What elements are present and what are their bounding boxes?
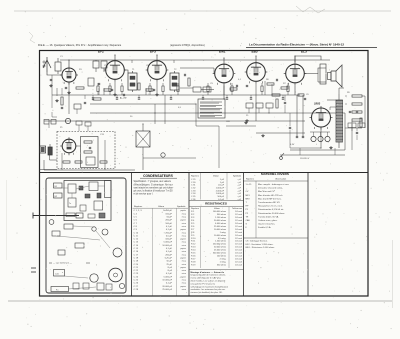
svg-text:R 19: R 19: [191, 264, 196, 266]
svg-text:– µF: – µF: [237, 185, 242, 187]
chassis: wiring run c: [73, 226, 94, 227]
svg-text:R 6: R 6: [191, 226, 195, 228]
loudspeaker HP: [328, 65, 343, 87]
dial scale block: [198, 99, 225, 118]
antenna: [43, 57, 47, 68]
svg-text:Potentiomètre 50.000 ohms.: Potentiomètre 50.000 ohms.: [258, 212, 285, 215]
wire: mid bottom links: [143, 157, 196, 159]
svg-text:50 µF: 50 µF: [166, 261, 172, 263]
svg-text:R 18: R 18: [191, 261, 196, 263]
svg-text:mica: mica: [182, 254, 187, 256]
trimmer row c: [266, 103, 273, 108]
svg-text:T1: T1: [132, 69, 135, 71]
svg-text:il sera utile d'ajuster le CAV: il sera utile d'ajuster le CAV plus: [191, 277, 221, 280]
svg-text:et de service pour I.: et de service pour I.: [134, 192, 154, 195]
svg-text:50 pF: 50 pF: [167, 217, 173, 219]
capacitor C6 near V4: [235, 85, 237, 87]
svg-text:S: S: [246, 224, 248, 226]
resistor R4 vertical: [138, 83, 140, 90]
svg-text:7s: 7s: [69, 203, 71, 205]
wire: transformer to rectifier: [327, 99, 336, 101]
svg-text:Transformateur BF 1/3.: Transformateur BF 1/3.: [258, 201, 280, 204]
svg-text:C 25: C 25: [134, 280, 139, 282]
svg-text:mica: mica: [182, 289, 187, 291]
svg-text:0,1 µF: 0,1 µF: [166, 251, 173, 253]
resistor R13: [84, 151, 92, 153]
wire: V6 cathode: [294, 85, 296, 95]
wire: grid bus drops: [95, 60, 97, 61]
rule under condensateurs heading: [140, 177, 177, 179]
svg-text:papier: papier: [180, 239, 186, 241]
svg-text:R 7: R 7: [191, 229, 195, 231]
outer frame of schematic sheet: [40, 51, 369, 297]
svg-text:HP: HP: [246, 206, 250, 208]
small parts row above BF box c: [76, 121, 82, 125]
resistor R9 mains dropper: [352, 95, 362, 97]
column rules inside resistances table: [200, 207, 202, 268]
svg-text:Potentiomètre 0,5 M. A. int.: Potentiomètre 0,5 M. A. int.: [258, 208, 284, 211]
svg-text:C 11: C 11: [134, 235, 139, 237]
chassis: small box r: [58, 250, 65, 255]
chassis: wiring run a: [62, 187, 68, 189]
chassis: small box k: [83, 283, 89, 289]
svg-text:Observation: Observation: [275, 178, 287, 181]
svg-text:1/4 watt: 1/4 watt: [235, 210, 242, 213]
chassis: bottom circle: [119, 283, 124, 288]
wire: right side links: [345, 95, 347, 97]
potentiometer P1: [48, 147, 52, 155]
svg-text:10.000 pF: 10.000 pF: [162, 245, 172, 247]
tube V2 (EF2): [104, 59, 127, 82]
wire: mid horizontal y68: [180, 67, 214, 69]
wire: BF bottom bus: [44, 169, 135, 171]
svg-text:papier: papier: [180, 286, 186, 288]
inner box of BF unit: [81, 137, 99, 168]
svg-text:mica: mica: [182, 280, 187, 282]
capacitor C19 bottom right: [356, 131, 358, 133]
wire: left mains: [43, 160, 45, 170]
svg-text:Clavier 4 touches.: Clavier 4 touches.: [258, 223, 276, 226]
svg-text:mica: mica: [182, 232, 187, 234]
wire: verticals right middle: [264, 81, 266, 95]
horizontal rule between schematic and parts lists: [40, 172, 369, 174]
condensateurs continuation rows: [191, 175, 242, 201]
rectifier tube V7: [310, 106, 333, 130]
svg-text:– µF: – µF: [237, 179, 242, 181]
output transformer to speaker wires: [304, 68, 326, 74]
svg-text:papier: papier: [180, 267, 186, 269]
svg-text:C 5: C 5: [134, 217, 138, 219]
capacitor C11 filter: [349, 110, 351, 112]
svg-text:C 30: C 30: [191, 182, 196, 184]
svg-text:8 µF: 8 µF: [168, 270, 173, 272]
wire: link to V4: [201, 89, 214, 91]
svg-text:Montage d'antenne. — Suivant l: Montage d'antenne. — Suivant la: [191, 271, 225, 274]
capacitor C9 cathode: [304, 97, 306, 99]
svg-text:0,1 µF: 0,1 µF: [166, 229, 173, 231]
resistor R20 stack: [352, 119, 362, 121]
wire: transformer leads: [338, 94, 340, 100]
header right underline: [246, 47, 377, 49]
chassis: box Fu: [51, 287, 69, 292]
svg-text:1 még.: 1 még.: [220, 232, 227, 234]
svg-text:1/2 watt: 1/2 watt: [235, 249, 242, 252]
svg-text:5.000 pF: 5.000 pF: [164, 242, 173, 244]
svg-text:C 15: C 15: [134, 248, 139, 250]
chassis: small circle h: [92, 227, 96, 231]
wire: V2 to T1: [124, 70, 128, 73]
resistor R2 below V2: [104, 89, 111, 91]
rule under materiel divers list: [244, 237, 309, 239]
svg-text:self-réglage et maximum d'ampl: self-réglage et maximum d'amplification: [191, 285, 229, 288]
svg-text:BKO : Résistance 1.000 ohms.: BKO : Résistance 1.000 ohms.: [246, 246, 276, 249]
clutter: small vertical resistors below tubes: [97, 83, 289, 95]
svg-text:MF1: MF1: [246, 195, 251, 197]
vertical rule right of materiel divers block: [307, 173, 309, 297]
chassis: can t: [49, 220, 54, 225]
rule under resistances heading: [189, 205, 244, 207]
svg-text:vant intacte les membres qui o: vant intacte les membres qui ont échan-: [134, 186, 174, 189]
chassis: tube socket EM: [109, 268, 123, 282]
svg-text:R 2: R 2: [191, 214, 195, 216]
resistor R19 stack: [352, 111, 362, 113]
svg-text:C 19: C 19: [134, 261, 139, 263]
svg-text:2x450 pF: 2x450 pF: [163, 210, 173, 212]
svg-text:C 31: C 31: [191, 185, 196, 187]
svg-text:0,1 µF: 0,1 µF: [166, 283, 173, 285]
chassis: small box n: [99, 213, 105, 218]
svg-text:Bloc d'accord CV.: Bloc d'accord CV.: [258, 191, 275, 193]
svg-text:papier: papier: [180, 257, 186, 259]
chassis: arrow annotation: [49, 262, 52, 264]
antenna terminal circles: [43, 61, 45, 63]
svg-text:Cadran verre, glace.: Cadran verre, glace.: [258, 220, 278, 222]
small resistor row b: [75, 161, 82, 163]
wire: left frame stub y169: [40, 169, 58, 171]
svg-text:0,5 még.: 0,5 még.: [218, 238, 227, 240]
svg-text:350 ohms: 350 ohms: [217, 264, 226, 266]
wire: V6 anode: [294, 56, 296, 62]
svg-text:R 1: R 1: [191, 211, 195, 213]
svg-text:C 22: C 22: [134, 270, 139, 272]
svg-text:150 pF: 150 pF: [165, 213, 172, 215]
power transformer TR laminated core: [336, 100, 343, 142]
condensateurs specification paragraph: [134, 180, 174, 195]
capacitor C1: [50, 78, 52, 80]
svg-text:EM1: EM1: [219, 50, 226, 54]
svg-text:papier: papier: [180, 276, 186, 278]
wire: tube V4 drop to dial: [223, 85, 225, 95]
wire: mains section: [290, 113, 345, 150]
wire: power top link: [295, 56, 321, 62]
chassis: wiring run d: [56, 236, 100, 240]
svg-text:1/4 watt: 1/4 watt: [235, 222, 242, 225]
svg-text:0,5: 0,5: [178, 107, 182, 109]
svg-text:R 12: R 12: [191, 244, 196, 246]
chassis: left margin tick: [31, 267, 36, 269]
svg-text:C 20: C 20: [134, 264, 139, 266]
chassis: block small f: [80, 205, 86, 211]
svg-text:C 29: C 29: [191, 179, 196, 181]
wire: screen bus segment: [103, 88, 105, 95]
svg-text:T: T: [246, 202, 248, 204]
svg-text:mica: mica: [182, 217, 187, 219]
svg-text:R 13: R 13: [191, 247, 196, 249]
svg-text:EB3: EB3: [252, 50, 258, 54]
wire junction dots: [68, 59, 69, 60]
svg-text:1/4 watt: 1/4 watt: [235, 234, 242, 237]
page bottom edge shadow of scanned sheet: [8, 300, 392, 302]
svg-text:mica: mica: [182, 213, 187, 215]
svg-text:R 16: R 16: [191, 255, 196, 257]
capacitor C5 below V3: [153, 88, 155, 90]
wire: V6 pair down: [296, 95, 298, 136]
small parts row above BF box b: [51, 120, 56, 125]
svg-text:0,1 µF: 0,1 µF: [166, 226, 173, 228]
svg-text:CV: CV: [210, 83, 214, 85]
resistor R18 left vertical: [61, 97, 63, 105]
svg-text:C9: C9: [306, 94, 310, 96]
wire: P1 link: [50, 155, 58, 160]
svg-text:ciennes (et doublets) les plus: ciennes (et doublets) les plus OK.: [191, 291, 223, 294]
wire: left column net: [61, 88, 63, 95]
svg-text:C 34: C 34: [191, 193, 196, 195]
svg-text:d'électrolytiques. G céramique: d'électrolytiques. G céramique. Ne trou-: [134, 183, 174, 186]
wire: V5 down: [255, 84, 257, 121]
svg-text:papier: papier: [180, 220, 186, 222]
svg-text:mica: mica: [182, 270, 187, 272]
svg-text:C 28: C 28: [134, 289, 139, 291]
transformer box BF: [86, 157, 95, 165]
svg-text:Repères: Repères: [134, 205, 143, 208]
column rules inside continuation table: [200, 173, 202, 200]
svg-text:C 23: C 23: [134, 273, 139, 275]
svg-text:C 35: C 35: [191, 196, 196, 198]
scan streak left margin: [6, 180, 8, 260]
svg-text:MATERIEL DIVERS: MATERIEL DIVERS: [261, 172, 289, 176]
rule above resistances heading: [189, 200, 244, 202]
svg-text:1/2 watt: 1/2 watt: [235, 254, 242, 257]
svg-text:C 27: C 27: [134, 286, 139, 288]
small resistor row c: [100, 161, 107, 163]
capacitor C12 filter: [356, 110, 358, 112]
trimmer row a: [246, 103, 253, 108]
svg-text:+: +: [120, 145, 122, 147]
svg-text:P1: P1: [246, 209, 249, 211]
chassis: small box p: [52, 231, 60, 236]
svg-text:0,1: 0,1: [238, 79, 242, 81]
wire: long horizontal link: [90, 103, 196, 105]
chassis: shaft hub: [76, 213, 83, 218]
svg-text:C 1, 2, 3: C 1, 2, 3: [134, 210, 143, 212]
svg-text:500 pF: 500 pF: [218, 196, 225, 198]
svg-text:mica: mica: [182, 245, 187, 247]
svg-text:10.000 ohms: 10.000 ohms: [214, 235, 226, 237]
svg-text:à la gamme PO et pour la: à la gamme PO et pour la: [191, 282, 216, 285]
svg-text:10.000 ohms: 10.000 ohms: [214, 229, 226, 231]
vertical rule left of materiel divers block: [243, 173, 245, 297]
svg-text:– µF: – µF: [237, 182, 242, 184]
chassis: elect can small: [102, 229, 108, 235]
trimmer CV1: [93, 61, 99, 68]
wire: bottom right drops: [351, 124, 353, 131]
svg-text:C1: C1: [60, 56, 64, 58]
svg-text:papier: papier: [180, 229, 186, 231]
svg-text:1/2 watt: 1/2 watt: [235, 219, 242, 222]
svg-text:Fu: Fu: [56, 290, 58, 292]
svg-text:100 ohms: 100 ohms: [217, 255, 226, 257]
capacitor C13: [89, 146, 91, 148]
svg-text:R 15: R 15: [191, 253, 196, 255]
svg-text:Bloc d'arrêt MF 472 kc/s.: Bloc d'arrêt MF 472 kc/s.: [258, 197, 282, 200]
chassis: small box q: [75, 243, 84, 248]
svg-text:Transfo d'alim. 65 VA.: Transfo d'alim. 65 VA.: [258, 215, 279, 218]
resistor R5: [230, 88, 237, 90]
resistor R3 below V3: [146, 89, 153, 91]
component value labels: [60, 56, 351, 153]
svg-text:200 pF: 200 pF: [165, 220, 172, 222]
capacitor C2: [65, 86, 67, 88]
svg-text:B1: B1: [55, 186, 58, 188]
ground left-mid: [56, 99, 58, 101]
svg-text:0,1 µF: 0,1 µF: [166, 248, 173, 250]
svg-text:C 21: C 21: [134, 267, 139, 269]
svg-text:(appareils 278902, disponibles: (appareils 278902, disponibles): [170, 44, 205, 47]
rule under materiel divers header: [244, 180, 309, 182]
ground near rectifier: [330, 146, 332, 148]
svg-text:Valeur: Valeur: [158, 205, 164, 208]
wire: V1 anode up: [68, 60, 70, 66]
trimmer row b: [256, 103, 263, 108]
svg-text:R 9: R 9: [191, 235, 195, 237]
svg-text:EF3: EF3: [150, 50, 156, 54]
svg-text:Valeur: Valeur: [213, 175, 219, 178]
svg-text:300.000 ohms: 300.000 ohms: [213, 253, 226, 255]
svg-text:100.000 ohms: 100.000 ohms: [213, 211, 226, 213]
svg-text:1.000 pF: 1.000 pF: [216, 193, 225, 195]
chassis: block tall d: [105, 181, 112, 198]
chassis: tuning shaft: [33, 215, 79, 217]
chassis: resistor strip: [66, 213, 75, 217]
svg-text:C 10: C 10: [134, 232, 139, 234]
chassis outline (vue de dessus): [46, 178, 126, 293]
chassis inner block frame: [64, 181, 111, 221]
svg-text:mica: mica: [182, 226, 187, 228]
svg-text:mica: mica: [182, 242, 187, 244]
trimmer CV2: [101, 61, 107, 68]
svg-text:1/4 watt: 1/4 watt: [235, 257, 242, 260]
resistor R14: [93, 98, 101, 100]
svg-text:papier: papier: [180, 248, 186, 250]
small resistor row a: [63, 161, 70, 163]
svg-text:CAD: CAD: [246, 219, 251, 222]
svg-text:La Documentation du Radio-Elec: La Documentation du Radio-Electricien — …: [249, 43, 344, 47]
capacitor C10 pair: [296, 135, 298, 137]
tube V1 (HF amplifier): [60, 66, 78, 85]
wire: BF verticals: [61, 153, 63, 170]
svg-text:200 pF: 200 pF: [165, 254, 172, 256]
svg-text:C 17: C 17: [134, 254, 139, 256]
svg-text:50: 50: [130, 116, 133, 118]
vertical rule inside materiel divers: [255, 181, 257, 238]
scan artifact top squiggle: [296, 6, 325, 13]
resistor R6: [267, 83, 274, 85]
svg-text:R6: R6: [266, 79, 270, 81]
chassis: block rect e: [94, 201, 103, 210]
chassis: block rect c: [89, 182, 98, 191]
svg-text:2.000 pF: 2.000 pF: [216, 190, 225, 192]
chassis: block square b: [68, 198, 76, 207]
wire: tube V2 drop: [114, 82, 116, 95]
wire: chassis bus: [44, 120, 305, 122]
wire: lamp feeds: [313, 132, 315, 136]
wire: V1 cathode chain down: [68, 82, 70, 114]
svg-text:– µF: – µF: [237, 196, 242, 198]
svg-text:R7: R7: [283, 83, 287, 85]
chassis: box C#: [54, 270, 65, 277]
svg-text:0,25 µF: 0,25 µF: [165, 257, 173, 259]
svg-text:C 12: C 12: [134, 239, 139, 241]
scan streak right margin: [392, 240, 394, 308]
svg-text:C 4: C 4: [134, 213, 138, 215]
svg-text:R 17: R 17: [191, 258, 196, 260]
chassis: wiring run e: [64, 276, 88, 278]
ground below V3: [156, 93, 158, 95]
svg-text:2 még.: 2 még.: [220, 258, 227, 260]
svg-text:CS : bobinage Secteur.: CS : bobinage Secteur.: [246, 240, 268, 243]
svg-text:C20: C20: [226, 121, 231, 123]
chassis: coil can B2: [54, 193, 63, 198]
coil L2 box: [88, 78, 94, 86]
svg-text:8 µF: 8 µF: [168, 267, 173, 269]
svg-text:EXC : Excitation 1.200 ohms.: EXC : Excitation 1.200 ohms.: [246, 243, 274, 246]
wire: V2 anode: [114, 55, 116, 59]
wire: V4 down: [223, 85, 225, 99]
svg-text:C 6: C 6: [134, 220, 138, 222]
chassis: coil can B1: [54, 183, 63, 188]
resistances table rows: [191, 210, 242, 266]
svg-text:25: 25: [246, 115, 249, 117]
svg-text:C 32: C 32: [191, 187, 196, 189]
darker speckle inside frame: [46, 52, 367, 293]
capacitor C8 coupling: [275, 79, 277, 81]
resistor R11 vertical: [360, 118, 362, 127]
svg-text:1/4 watt: 1/4 watt: [235, 216, 242, 219]
wire: row links: [48, 124, 50, 128]
capacitor C7: [246, 84, 248, 86]
svg-text:EL3: EL3: [301, 50, 307, 54]
wire: left verticals: [51, 75, 53, 95]
svg-text:Spécification : 7 groupes, aux: Spécification : 7 groupes, aux valeurs: [134, 180, 172, 183]
svg-text:C 9: C 9: [134, 229, 138, 231]
chassis: block square a: [68, 184, 76, 193]
page top edge of scanned sheet: [14, 10, 391, 12]
chassis: small filled part c: [97, 193, 101, 198]
small circle junction: [161, 153, 165, 157]
wire: x290 drop: [289, 113, 291, 126]
svg-text:R.E.E. — 16. Quelques Valeurs,: R.E.E. — 16. Quelques Valeurs, Prix R.V.…: [38, 43, 122, 47]
svg-text:Tolérances: Tolérances: [232, 207, 242, 210]
wire: V5 anode: [255, 56, 257, 61]
svg-text:— vue intérieure —: — vue intérieure —: [52, 262, 73, 265]
wire: speaker field: [339, 88, 344, 94]
svg-text:C 13: C 13: [134, 242, 139, 244]
ground at V5 bus: [246, 119, 248, 121]
svg-text:T2: T2: [174, 69, 177, 71]
svg-text:250 pF: 250 pF: [165, 232, 172, 234]
svg-text:50.000 ohms: 50.000 ohms: [214, 220, 226, 222]
svg-text:R 4: R 4: [191, 220, 195, 222]
